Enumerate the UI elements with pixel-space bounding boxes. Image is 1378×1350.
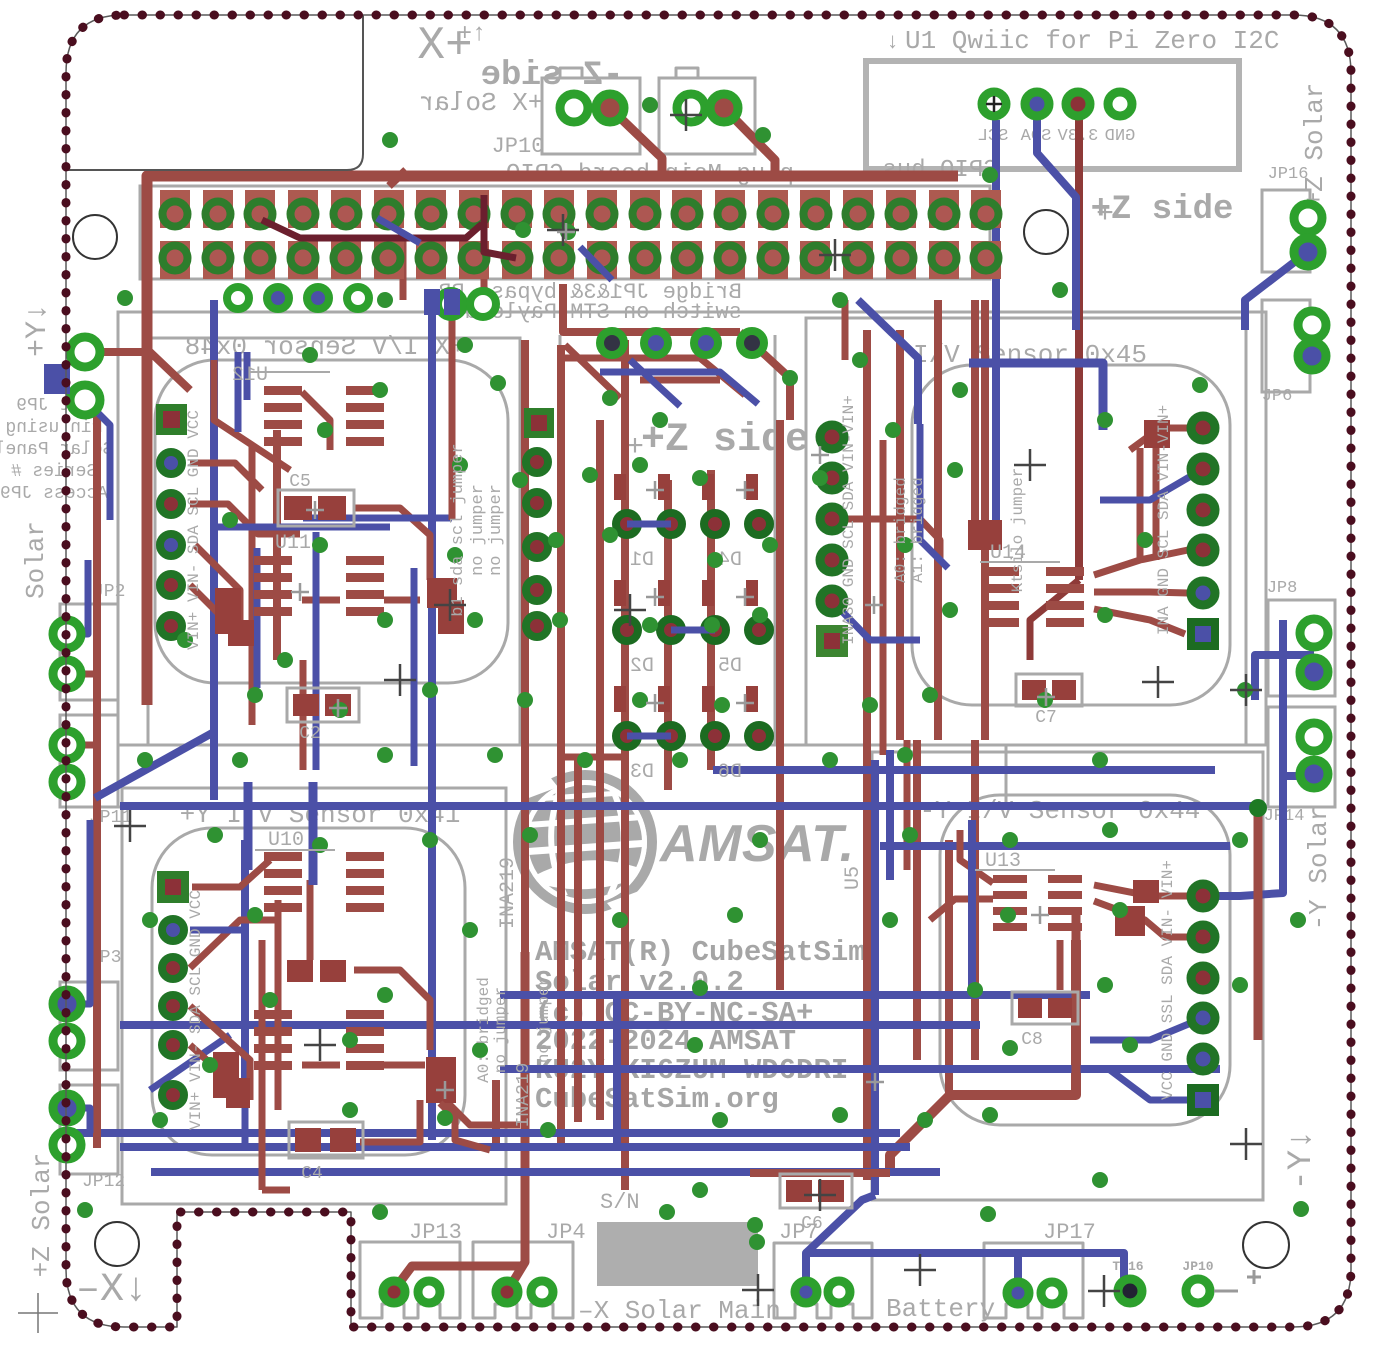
mounting hole bottom-right <box>1243 1222 1289 1268</box>
svg-text:+: + <box>1096 198 1114 232</box>
wire blue left edge segs <box>67 820 90 1004</box>
wire red B-L fan B <box>190 920 280 968</box>
wire blue B-R vert x972 <box>968 820 976 995</box>
wire blue horiz y770 <box>713 766 1215 774</box>
wire red T-L diag top <box>214 360 290 470</box>
svg-text:U11: U11 <box>275 532 311 555</box>
svg-text:D6: D6 <box>718 761 742 784</box>
wire red B-L low <box>302 1062 425 1069</box>
fiducial cross bottom-left corner <box>18 1293 58 1333</box>
wire red B-R U13 in <box>960 830 993 883</box>
pads T-L left column <box>160 452 182 474</box>
svg-text:INA219: INA219 <box>497 857 520 929</box>
mounting hole bottom-left <box>95 1222 139 1266</box>
wire red vert x975 <box>971 740 979 1060</box>
resistor R2 B-R <box>1133 880 1159 903</box>
GPIO header silkscreen box J1 <box>140 186 990 279</box>
svg-text:A1: bridged: A1: bridged <box>909 477 927 583</box>
wire red B-L C4 link <box>262 1100 420 1190</box>
svg-text:D1: D1 <box>630 549 654 572</box>
wire blue horiz y1133 <box>60 1129 900 1137</box>
wire red elbow bottom-right <box>890 940 1076 1173</box>
IC U11 fingers T-L <box>254 556 292 565</box>
svg-text:CubeSatSim.org: CubeSatSim.org <box>535 1083 779 1116</box>
diodes D1-D6 smd pads <box>614 474 626 500</box>
pad square M-R left column <box>816 625 848 657</box>
wire blue horiz y806 <box>120 802 1258 810</box>
svg-text:VIN+ VIN- SDA SCL GND VCC: VIN+ VIN- SDA SCL GND VCC <box>185 410 203 650</box>
IC U13 fingers B-R <box>993 875 1027 883</box>
wire red B-L fan D <box>190 1045 240 1090</box>
capacitor blue C bypass <box>424 289 440 315</box>
IC U14 fingers M-R <box>981 567 1019 576</box>
module outline +X I/V Sensor 0x48 <box>148 338 520 745</box>
wire blue vert x214 <box>210 300 218 800</box>
connector JP1 pads top <box>677 94 705 122</box>
wire blue JP7 battery <box>806 1253 1018 1290</box>
svg-text:TP16: TP16 <box>1112 1259 1143 1274</box>
wire red JP10 stub A <box>610 108 662 172</box>
wire red vert x711 <box>707 470 715 770</box>
wire red vert x668 <box>664 480 672 790</box>
wire red top-right qwiic <box>1075 112 1083 580</box>
connector U1 qwiic pads <box>982 92 1006 116</box>
connector JP7 pads <box>795 1281 817 1303</box>
svg-text:C4: C4 <box>301 1164 323 1184</box>
wire red T-L vert x252 <box>249 445 256 725</box>
alignment crosses <box>114 810 146 842</box>
wire red M-R right col link <box>1130 428 1203 450</box>
bypass pads row C JP1&3 <box>600 331 624 355</box>
wire red left stub JP2 <box>67 671 100 678</box>
svg-text:Access JP9: Access JP9 <box>0 484 108 504</box>
wire red topmid diag <box>740 332 790 420</box>
connector JP10 pads top <box>560 94 588 122</box>
wire red T-L fan B <box>190 504 300 534</box>
wire red T-L top bars link <box>302 392 330 450</box>
wire red vert x780 <box>776 420 784 990</box>
pads T-L right column <box>526 451 548 473</box>
small gray plus marks <box>646 481 664 499</box>
svg-text:U5: U5 <box>842 866 865 890</box>
svg-text:JP16: JP16 <box>1268 165 1309 184</box>
transistor B2 <box>213 1052 239 1098</box>
wire blue horiz y1069 <box>500 1065 1220 1073</box>
svg-text:C5: C5 <box>289 472 311 492</box>
wire red T-L vert x303 <box>300 660 307 770</box>
pads M-R left column <box>820 425 844 449</box>
wire blue horiz y995 <box>500 991 1090 999</box>
connector J1 GPIO 2x20 header pads <box>160 190 190 228</box>
wire red vert x578 <box>574 760 582 1122</box>
wire blue left diag JP11 <box>95 732 214 798</box>
IC U12 fingers T-L <box>264 386 302 395</box>
wire red gpio drop x403 <box>400 238 407 300</box>
svg-text:+Z Solar: +Z Solar <box>27 1153 57 1278</box>
wire red M-R horiz y520 <box>848 519 940 560</box>
wire blue vert x617 <box>613 995 621 1147</box>
capacitor C2 <box>287 688 359 722</box>
svg-text:JP10: JP10 <box>1182 1259 1213 1274</box>
pad square T-L column <box>156 404 187 435</box>
diode pair blue links <box>627 521 671 528</box>
pads top-left corner <box>70 337 100 367</box>
diodes D1-D6 pads <box>616 513 638 535</box>
wire blue bottom JP12 <box>67 1108 90 1133</box>
wire blue T-L top verts <box>235 352 242 432</box>
wire red T-L right vert <box>449 300 456 520</box>
wire blue vert x432 <box>428 300 436 1140</box>
connector JP1 box top <box>659 78 755 154</box>
wire blue topmid diag <box>858 300 918 424</box>
wire red vert x985 <box>981 300 989 740</box>
svg-text:-Y I/V Sensor 0x44: -Y I/V Sensor 0x44 <box>920 796 1201 826</box>
wire red M-R verts <box>1137 448 1144 560</box>
connector JP8 pads <box>1300 619 1328 647</box>
connector JP8 boxes right middle <box>1268 600 1335 696</box>
wire blue M-R horiz y363 <box>969 363 1103 430</box>
wire blue M-R vert x920 <box>920 424 948 568</box>
connector JP10 box top-left <box>542 78 640 154</box>
connector JP2 boxes left <box>60 604 118 700</box>
via dots scattered <box>382 132 398 148</box>
connector JP2 pads <box>53 620 81 648</box>
wire red vert x938 <box>934 300 942 740</box>
wire red GPIO wrap bus <box>147 176 958 705</box>
resistor R M-R <box>1144 420 1170 448</box>
svg-text:INA30 GND SCL SDA VIN-VIN+: INA30 GND SCL SDA VIN-VIN+ <box>840 395 858 645</box>
wire red topmid feed <box>560 358 745 395</box>
module outline I/V Sensor 0x45 <box>806 318 1246 745</box>
wire blue right JP8a <box>1255 655 1314 700</box>
silkscreen diode field column lines <box>559 335 562 745</box>
wire red M-R top diag <box>1030 580 1079 660</box>
wire red vert x917 <box>913 740 921 1060</box>
svg-text:Pin using: Pin using <box>5 418 102 438</box>
connector JP6 box right <box>1262 300 1310 392</box>
mounting hole top-right <box>1024 210 1068 254</box>
connector JP3 boxes left <box>60 982 118 1070</box>
wire red JP13 feed <box>394 1266 523 1290</box>
pad square T-L right column <box>524 408 554 438</box>
wire red T-L fan A <box>190 463 262 490</box>
wire blue right edge JP16 <box>1245 250 1310 330</box>
svg-text:Solar: Solar <box>21 521 51 599</box>
svg-text:+X I/V Sensor 0x48: +X I/V Sensor 0x48 <box>185 332 466 362</box>
pads B-L column <box>162 919 184 941</box>
connector U1 Qwiic box outline <box>866 61 1239 169</box>
svg-text:S/N: S/N <box>600 1190 640 1215</box>
connector JP17 box <box>984 1243 1083 1318</box>
silkscreen outer frame upper modules region <box>118 312 1266 745</box>
wire red B-L fan A <box>192 860 270 887</box>
serial number gray box <box>597 1222 758 1286</box>
svg-text:GND: GND <box>1105 127 1136 146</box>
wire blue horiz y1147 <box>120 1143 910 1151</box>
wire blue B-L vert x245b <box>242 1080 249 1147</box>
capacitor blue top-left <box>44 364 70 394</box>
resistor R6 T-L <box>427 578 457 608</box>
testpoint JP10 pad <box>1186 1279 1210 1303</box>
wire blue B-R vert x890 <box>886 750 894 880</box>
connector JP4 pads <box>496 1281 518 1303</box>
wire red upper-left stub <box>85 352 190 390</box>
svg-text:–X↓: –X↓ <box>76 1268 148 1313</box>
svg-text:INA GND SCL SDA VIN-VIN+: INA GND SCL SDA VIN-VIN+ <box>1155 405 1173 635</box>
wire red JP4 feed <box>508 952 525 1290</box>
svg-text:Battery: Battery <box>886 1294 995 1324</box>
svg-text:no jumper: no jumper <box>535 977 553 1063</box>
svg-text:–X Solar Main: –X Solar Main <box>578 1296 781 1326</box>
wire blue B-R sq link <box>1110 1070 1203 1100</box>
testpoint TP16 <box>1118 1279 1142 1303</box>
wire red topmid horiz y332 <box>563 284 740 332</box>
wire red bus jog <box>389 170 406 186</box>
wire blue M-R diag <box>1100 469 1203 500</box>
svg-text:U10: U10 <box>268 829 304 852</box>
connector JP7 box <box>774 1243 872 1318</box>
wire blue vert x875 <box>871 760 879 1195</box>
wire red gpio drop x484 <box>481 250 488 295</box>
svg-text:b1 sda scl jumper: b1 sda scl jumper <box>449 443 468 616</box>
wire red B-L diag <box>430 1085 520 1125</box>
svg-text:no jumper: no jumper <box>492 987 510 1073</box>
svg-text:D3: D3 <box>630 761 654 784</box>
wire red B-L vert x310 <box>307 880 314 960</box>
svg-text:+X Solar: +X Solar <box>419 88 544 118</box>
wire red vert x561 <box>557 345 565 1150</box>
svg-text:+Y↓: +Y↓ <box>21 303 55 357</box>
connector JP13 box <box>360 1242 460 1318</box>
pad square M-R right column <box>1187 618 1219 650</box>
capacitor C6 <box>780 1174 852 1208</box>
svg-text:D5: D5 <box>718 655 742 678</box>
svg-text:D2: D2 <box>630 655 654 678</box>
silkscreen frame lower-left region <box>118 745 1006 807</box>
wire dark-red snake between GPIO rows <box>262 195 516 258</box>
bypass pads row B <box>438 291 464 317</box>
module outline +Y I/V Sensor 0x41 <box>122 788 506 1204</box>
svg-text:-Y↓: -Y↓ <box>1283 1129 1321 1190</box>
wire blue B-R top <box>1090 1018 1203 1040</box>
svg-text:VCC GND SSL SDA VIN- VIN+: VCC GND SSL SDA VIN- VIN+ <box>1159 860 1177 1100</box>
wire red vert x600 <box>596 420 604 1120</box>
wire red vert x900 <box>896 330 904 740</box>
transistor B1 <box>215 588 241 634</box>
pad square B-L column <box>157 871 189 903</box>
pads B-R column <box>1191 884 1215 908</box>
wire blue B-L top verts <box>244 782 253 870</box>
connector JP3 pads <box>53 990 81 1018</box>
wire blue T-L vert x414 <box>411 568 418 766</box>
svg-text:C6: C6 <box>801 1214 823 1234</box>
wire blue T-L vert x257 <box>254 548 261 688</box>
connector JP16 pads <box>1294 204 1322 232</box>
svg-text:JP6: JP6 <box>1262 387 1293 406</box>
board cutout thin line top-left <box>66 15 363 170</box>
svg-text:JP17: JP17 <box>1043 1220 1096 1245</box>
svg-text:+↑: +↑ <box>458 21 487 48</box>
svg-text:AMSAT(R) CubeSatSim: AMSAT(R) CubeSatSim <box>535 936 866 969</box>
svg-text:U1 Qwiic for Pi Zero I2C: U1 Qwiic for Pi Zero I2C <box>905 26 1279 56</box>
connector JP16 box right <box>1262 190 1310 272</box>
wire red vert x525 <box>521 340 529 952</box>
wire red vert x625 <box>621 340 629 1190</box>
wire blue B-L horiz y930 <box>190 927 245 934</box>
svg-text:U12: U12 <box>232 364 268 387</box>
resistor R3 B-R <box>1115 906 1145 936</box>
via JP14 area <box>1249 799 1267 817</box>
svg-text:no jumper: no jumper <box>487 484 506 576</box>
svg-text:Series #: Series # <box>11 462 98 482</box>
connector JP6 pads <box>1298 311 1326 339</box>
svg-text:JP10: JP10 <box>492 134 545 159</box>
wire red T-L low link <box>302 597 420 604</box>
svg-text:Ktsilo jumper: Ktsilo jumper <box>1009 468 1027 593</box>
connector JP13 pads <box>383 1281 405 1303</box>
IC U11b fingers B-L <box>254 1010 292 1019</box>
wire blue T-L vert x316 <box>313 532 320 770</box>
svg-text:no jumper: no jumper <box>469 484 488 576</box>
wire blue upper-left stub <box>85 400 110 520</box>
wire blue topmid feed <box>600 372 758 404</box>
svg-text:C7: C7 <box>1035 708 1057 728</box>
wire red vert x496 <box>492 1080 500 1150</box>
resistor R4 B-L <box>426 1057 456 1103</box>
wire red topmid x845 <box>842 300 849 360</box>
svg-text:↓: ↓ <box>886 30 899 55</box>
wire red left edge vert x97 <box>93 415 101 1148</box>
wire blue T-L horiz y518 <box>303 515 452 522</box>
capacitor C7 <box>1016 674 1082 706</box>
wire red T-L fan C <box>195 545 240 640</box>
svg-text:C2: C2 <box>299 724 321 744</box>
wire red T-L mid link <box>354 508 430 580</box>
wire blue horiz y1172 <box>151 1168 940 1176</box>
AMSAT logo globe <box>510 775 655 913</box>
wire blue horiz y1025 <box>120 1021 980 1029</box>
pads M-R right column <box>1191 416 1215 440</box>
capacitor C4 <box>289 1122 363 1158</box>
wire red B-R diag C8 <box>1057 940 1064 990</box>
wire blue right JP14 <box>1210 620 1312 896</box>
wire red right x1258 <box>1254 808 1263 1040</box>
wire red B-L vert x262 <box>259 940 266 1190</box>
wire red B-L fan C <box>190 1006 250 1100</box>
wire blue diag GPIO b <box>580 247 612 280</box>
wire blue M-R bottom <box>832 601 920 640</box>
svg-text:JP8: JP8 <box>1267 579 1298 598</box>
svg-text:VIN+ VIN- SDA SCL GND VCC: VIN+ VIN- SDA SCL GND VCC <box>187 890 205 1130</box>
wire blue horiz y846 <box>880 842 1230 850</box>
IC U10 fingers B-L <box>264 852 302 861</box>
wire red vert x963 <box>971 300 979 520</box>
bypass pads row A <box>227 287 249 309</box>
wire blue diag GPIO a <box>377 218 420 243</box>
capacitor C5 <box>278 490 354 526</box>
svg-text:C8: C8 <box>1021 1030 1043 1050</box>
wire red B-R fan <box>1094 885 1188 896</box>
svg-text:-Y Solar: -Y Solar <box>1304 806 1334 931</box>
svg-text:A0: bridged: A0: bridged <box>892 477 910 583</box>
svg-text:INA219: INA219 <box>514 1063 534 1128</box>
wire red horiz y1173 <box>750 1169 890 1177</box>
pad square B-R column <box>1187 1084 1219 1116</box>
capacitor C9 B-L <box>287 960 313 982</box>
wire red T-L fan D <box>190 585 260 627</box>
wire blue qwiic SDA <box>1037 118 1076 330</box>
wire blue T-L diag bottom <box>150 1035 230 1090</box>
capacitor C8 <box>1012 992 1078 1024</box>
connector JP4 box <box>473 1242 573 1318</box>
wire red vert x867 <box>863 330 871 1180</box>
wire red JP1 stub B <box>724 108 775 172</box>
module outline -Y I/V Sensor 0x44 <box>872 752 1263 1200</box>
wire red M-R fan right <box>1094 550 1188 575</box>
connector JP17 pads <box>1007 1282 1029 1304</box>
wire red M-R blob <box>968 520 1002 550</box>
mounting hole top-left <box>73 215 117 259</box>
wire blue vert x245 <box>241 840 249 1080</box>
wire red B-R vert x1076 <box>1072 912 1081 1095</box>
wire blue T-L horiz y527 <box>215 524 390 531</box>
wire blue qwiic SCL <box>992 120 1000 520</box>
wire red B-L mid <box>354 970 430 1050</box>
svg-text:A0: bridged: A0: bridged <box>475 977 493 1083</box>
